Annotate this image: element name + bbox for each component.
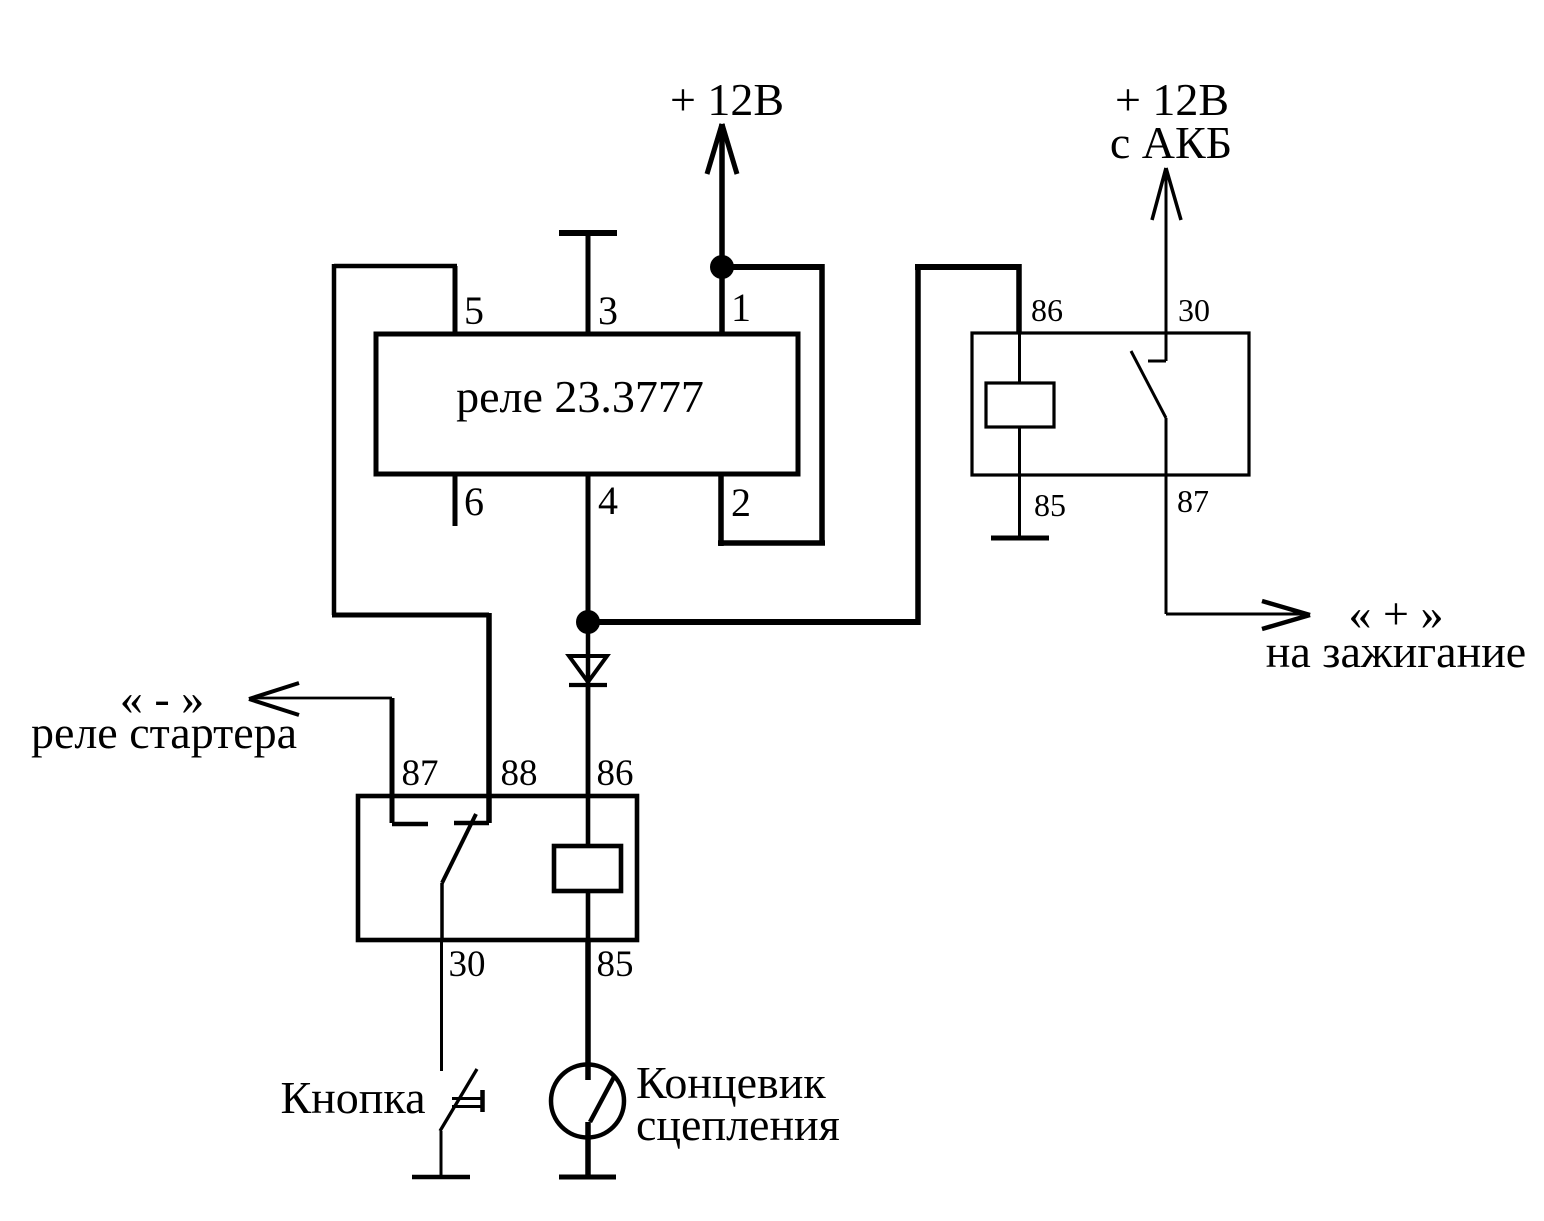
+12V label [670,74,784,125]
svg-text:86: 86 [1031,292,1063,328]
svg-text:Кнопка: Кнопка [281,1072,426,1123]
Концевик сцепления label [636,1057,840,1150]
pin 85 label of K2 [1034,487,1066,523]
svg-text:с АКБ: с АКБ [1110,117,1232,168]
svg-text:30: 30 [449,944,486,985]
pin 5 stub of U1 [453,266,458,334]
pin 1 label [731,285,751,330]
ground of SQ1 [559,1122,616,1177]
svg-text:+ 12В: + 12В [670,74,784,125]
pin 86 label of K1 [597,753,634,794]
pin 30 label of K1 [449,944,486,985]
svg-text:5: 5 [464,288,484,333]
pin 3 label [598,288,618,333]
pin 6 stub of U1 [453,474,458,526]
pin 30 wire of K1 [440,940,443,1071]
wire to starter relay arrow [249,683,392,715]
svg-text:87: 87 [402,753,439,794]
svg-text:30: 30 [1178,292,1210,328]
wire node B to relay K2 coil pin 86 [588,264,1019,625]
« + » на зажигание label [1266,588,1526,677]
pin 86 label of K2 [1031,292,1063,328]
pin 85 wire and ground of K2 [991,475,1049,538]
relay K2 box (right relay) [972,333,1249,475]
junction node B (pin4 / diode / to K2) [576,610,600,634]
pin 4 wire of U1 down to node B [586,474,591,622]
svg-text:сцепления: сцепления [636,1099,840,1150]
relay U1 value label [456,371,704,422]
svg-text:88: 88 [501,753,538,794]
diode VD1 [569,622,607,796]
svg-text:реле 23.3777: реле 23.3777 [456,371,704,422]
wire node A to pin 2 loop [718,264,825,543]
relay K1 coil [554,846,621,940]
pin 87 label of K1 [402,753,439,794]
pin 6 label [464,479,484,524]
ground terminal above pin 3 [559,233,617,334]
pin 87 label of K2 [1177,483,1209,519]
push button SB1 Кнопка [440,1069,483,1131]
pin 86 wire of K1 (from diode) [586,685,591,846]
+12V supply arrow at pin 1 [707,124,737,267]
svg-text:3: 3 [598,288,618,333]
svg-text:реле стартера: реле стартера [31,707,297,758]
svg-text:4: 4 [598,478,618,523]
svg-text:2: 2 [731,480,751,525]
pin 2 label [731,480,751,525]
pin 85 wire of K1 [585,940,591,1080]
pin 1 stub of U1 [719,267,725,334]
ground of SB1 [412,1131,470,1177]
clutch limit switch SQ1 Концевик сцепления [551,1065,624,1138]
svg-text:6: 6 [464,479,484,524]
pin 30 label of K2 [1178,292,1210,328]
pin 2 stub of U1 [718,474,724,546]
relay K1 box (bottom relay) [358,796,637,940]
svg-text:на зажигание: на зажигание [1266,626,1526,677]
pin 5 label [464,288,484,333]
Кнопка label [281,1072,426,1123]
svg-text:1: 1 [731,285,751,330]
+12V from battery arrow at pin 30 of K2 [1152,168,1181,361]
pin 88 label [501,753,538,794]
pin 87 wire of K1 with contact hook [392,698,428,824]
relay K2 coil [986,333,1054,475]
pin 4 label [598,478,618,523]
pin 85 label of K1 [597,944,634,985]
pin 88 wire into relay K1 [454,613,489,823]
pin 87 wire of K2 to ignition arrow [1166,418,1310,629]
wire left loop pin5 to pin88 [332,264,489,615]
+12V с АКБ label [1110,74,1232,168]
svg-text:85: 85 [597,944,634,985]
junction node A (pin1 / +12V / pin2 loop) [710,255,734,279]
svg-text:85: 85 [1034,487,1066,523]
relay U1 box реле 23.3777 [376,334,798,474]
svg-text:87: 87 [1177,483,1209,519]
« - » реле стартера label [31,673,297,758]
svg-text:86: 86 [597,753,634,794]
contact blade of K2 [1131,351,1166,418]
contact blade of K1 [442,814,476,940]
contact of K2 (fixed end hook) [1148,360,1166,363]
